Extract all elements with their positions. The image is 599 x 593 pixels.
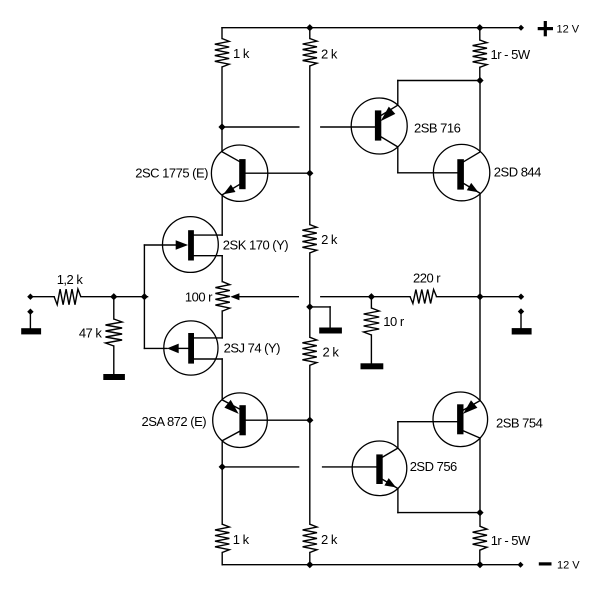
resistor 1r-5W (bottom): [473, 526, 487, 550]
wire 2k to -12V rail: [309, 553, 311, 565]
resistor 100r (trimmer): [215, 282, 229, 311]
wire Q8 collector up: [397, 422, 399, 448]
wire 220r to output: [437, 296, 522, 298]
wire Q8 collector diagonal: [383, 448, 398, 457]
wire Q7 emitter diagonal: [464, 401, 481, 410]
resistor 2k (mid lower): [302, 337, 316, 365]
transistor Q2 2SK 170 (Y) N-JFET: [144, 217, 222, 273]
wire junction to 10r: [370, 297, 372, 308]
junction node A (222,127): [218, 123, 225, 130]
transistor Q8 2SD 756 NPN: [352, 441, 407, 496]
svg-text:1,2 k: 1,2 k: [57, 272, 84, 287]
transistor Q4 2SA 872 (E) PNP: [213, 393, 310, 448]
Q5 emitter arrow: [381, 107, 396, 122]
node input terminal bottom: [27, 309, 33, 315]
svg-text:1r - 5W: 1r - 5W: [491, 47, 531, 62]
ground (output): [512, 328, 532, 334]
wire Q3 drain to Q4 emitter: [221, 359, 223, 400]
wire Q7 collector to node F: [479, 438, 481, 512]
transistor Q3 2SJ 74 (Y) P-JFET: [144, 321, 222, 375]
Q3 gate arrow: [167, 344, 179, 354]
junction node C (310,420) 2SA872 base: [306, 417, 313, 424]
svg-text:1 k: 1 k: [233, 532, 250, 547]
wire Q1 base to node B: [246, 172, 310, 174]
wire Q5 collector to Q6 base: [398, 172, 458, 174]
node output terminal top: [518, 294, 524, 300]
wire Q5 emitter up: [397, 81, 399, 106]
junction node D (222,467): [219, 463, 226, 470]
resistor 2k (top): [303, 39, 317, 67]
wire Q3 drain lead: [194, 358, 222, 360]
wire 1,2k to gate bus: [81, 296, 148, 298]
wire Q5 emitter diagonal: [381, 105, 398, 115]
wire 1k to -12V rail: [221, 553, 223, 565]
ground (middle): [319, 328, 342, 334]
wire Q1 collector diagonal: [222, 152, 240, 162]
wire node E to Q6 collector: [479, 81, 481, 152]
wire Q5 emitter to node E: [398, 80, 480, 82]
100r wiper arrow: [230, 293, 239, 300]
resistor 1,2k (input series): [54, 289, 81, 305]
node input terminal top: [27, 294, 33, 300]
svg-text:12 V: 12 V: [557, 23, 580, 35]
resistor 1r-5W (top): [473, 40, 487, 67]
wire node A to 2SB716 base (left of crossover gap): [222, 126, 299, 128]
wire 2k mid-upper to 2k mid-lower: [309, 253, 311, 337]
wire Q3 source lead: [194, 337, 222, 339]
Q6 emitter arrow: [467, 183, 479, 192]
junction output (480,297): [476, 293, 483, 300]
svg-text:10 r: 10 r: [383, 314, 405, 329]
svg-text:2 k: 2 k: [321, 46, 338, 61]
svg-text:2SB 754: 2SB 754: [496, 415, 543, 430]
ground (10r): [361, 363, 384, 369]
wire +12V top rail: [222, 27, 521, 29]
wire Q8 emitter diagonal: [383, 480, 398, 489]
wire 100r to Q3 source: [221, 311, 223, 338]
wire 2k mid-lower to 2k bottom (through node C): [309, 365, 311, 524]
wire to mid ground: [310, 306, 330, 308]
wire -12V bottom rail: [222, 564, 520, 566]
svg-text:2SJ 74 (Y): 2SJ 74 (Y): [224, 341, 281, 356]
node +12V terminal dot: [518, 25, 524, 31]
Q2 gate arrow: [176, 240, 188, 250]
wire output node to Q7 emitter: [479, 297, 481, 401]
wire Q8 emitter to node F: [398, 512, 480, 514]
wire Q7 base: [398, 421, 457, 423]
wire Q4 collector diagonal: [222, 431, 240, 441]
resistor 10r: [364, 308, 380, 335]
wire 10r to ground: [370, 335, 372, 363]
wire input shield to ground: [29, 312, 31, 329]
wire Q5 collector diagonal: [381, 137, 398, 147]
svg-text:2SD 756: 2SD 756: [410, 459, 457, 474]
wire Q2 drain lead: [194, 234, 222, 236]
transistor Q6 2SD 844 NPN: [433, 144, 489, 200]
wire Q4 base to node C: [246, 419, 310, 421]
junction rail/1r-5W bottom: [476, 561, 483, 568]
wire rail to R 1k top-left: [221, 28, 223, 39]
wire Q6 emitter diagonal: [464, 184, 480, 194]
svg-text:2SB 716: 2SB 716: [414, 121, 461, 136]
wire gate bus x=144: [143, 245, 145, 348]
wire wiper to crossover gap: [239, 296, 298, 298]
junction 47k top (114,297): [110, 293, 117, 300]
wire output shield to ground: [520, 312, 522, 329]
Q1 emitter arrow: [223, 185, 235, 195]
ground (input): [21, 328, 41, 334]
transistor Q1 2SC 1775 (E) NPN: [211, 145, 309, 201]
Q8 emitter arrow: [384, 478, 396, 487]
junction node B (310,173) 2SC1775 base: [306, 170, 313, 177]
transistor Q7 2SB 754 PNP: [398, 392, 488, 447]
junction mid ground (310,307): [306, 303, 313, 310]
wire 1k bottom to 2SC1775 collector: [221, 67, 223, 152]
wire to 2SB716 base (right of crossover gap): [321, 126, 375, 128]
wire to 2SD756 base (right of gap): [323, 466, 377, 468]
wire rail to R 1r-5W top: [479, 28, 481, 40]
node -12V terminal dot: [518, 562, 524, 568]
svg-text:2 k: 2 k: [321, 232, 338, 247]
junction node F (480,512.6): [476, 509, 483, 516]
Q7 emitter arrow: [463, 400, 477, 414]
svg-text:2 k: 2 k: [323, 345, 340, 360]
transistor Q5 2SB 716 PNP: [351, 98, 407, 154]
wire Q1 emitter diagonal: [222, 184, 239, 194]
resistor 1k (top left): [215, 39, 229, 68]
wire 2k top to 2k mid-upper (through node B): [309, 66, 311, 225]
wire node D to 2SD756 base (left of gap): [222, 466, 298, 468]
wire Q4 emitter diagonal: [222, 400, 240, 409]
wire Q6 collector diagonal: [464, 152, 480, 162]
resistor 1k (bottom left): [215, 524, 229, 552]
wire rail to R 2k top: [309, 28, 311, 39]
wire Q7 collector diagonal: [464, 431, 481, 438]
power -12V symbol: [539, 562, 552, 565]
svg-text:2SA 872 (E): 2SA 872 (E): [141, 414, 206, 429]
wire 47k to ground: [113, 346, 115, 374]
wire Q2 source lead: [194, 255, 222, 257]
Q4 emitter arrow: [224, 400, 238, 414]
junction 10r top (371,297): [368, 293, 375, 300]
wire input to 1,2k: [30, 296, 54, 298]
wire Q3 gate lead: [144, 347, 167, 349]
wire Q2 source to 100r: [221, 256, 223, 282]
junction rail/2k top: [306, 24, 313, 31]
svg-text:2 k: 2 k: [321, 532, 338, 547]
wire node F to 1r-5W bottom: [479, 513, 481, 527]
wire Q6 emitter to output node: [479, 193, 481, 296]
svg-text:100 r: 100 r: [185, 289, 213, 304]
wire mid ground drop: [329, 307, 331, 328]
wire to 220r: [321, 296, 410, 298]
svg-text:220 r: 220 r: [413, 271, 441, 286]
wire 1r-5W to -12V rail: [479, 550, 481, 565]
svg-text:2SD 844: 2SD 844: [494, 165, 541, 180]
wire Q1 emitter to Q2 drain: [221, 195, 223, 235]
svg-text:2SC 1775 (E): 2SC 1775 (E): [135, 165, 208, 180]
svg-text:12 V: 12 V: [557, 560, 580, 572]
wire Q3 gate to bar: [179, 347, 188, 349]
svg-text:47 k: 47 k: [79, 325, 103, 340]
wire to 47k: [113, 297, 115, 319]
junction node E (480,80.5): [476, 77, 483, 84]
ground (47k): [103, 374, 125, 380]
wire 1r-5W to node E: [479, 67, 481, 80]
wire Q4 collector to 1k bottom: [221, 441, 223, 525]
wire Q2 gate lead: [144, 244, 176, 246]
node output terminal bottom: [518, 308, 524, 314]
svg-text:2SK 170 (Y): 2SK 170 (Y): [223, 237, 288, 252]
svg-text:1r - 5W: 1r - 5W: [491, 533, 531, 548]
resistor 2k (bottom): [303, 524, 317, 552]
resistor 47k: [106, 319, 123, 346]
resistor 220r: [410, 290, 437, 304]
wire Q5 collector down: [397, 147, 399, 173]
power +12V symbol: [538, 27, 553, 30]
junction rail/2k bottom: [306, 561, 313, 568]
junction input/gates (144,297): [141, 293, 148, 300]
junction rail/1r-5W top: [476, 24, 483, 31]
svg-text:1 k: 1 k: [233, 46, 250, 61]
wire Q8 emitter down: [397, 489, 399, 513]
resistor 2k (mid upper): [302, 225, 316, 254]
